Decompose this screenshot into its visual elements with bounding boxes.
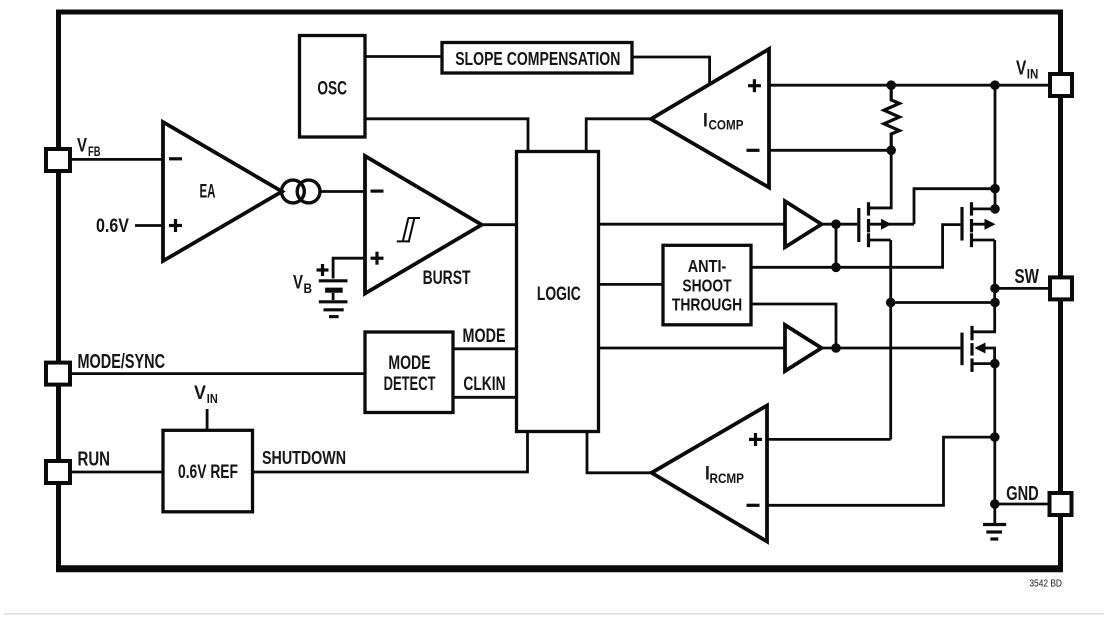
label ANTI-SHOOT THROUGH [672, 256, 742, 315]
wire anti-shoot upper output to main PMOS gate [751, 225, 960, 268]
node dot NMOS gate drive [831, 343, 841, 353]
wire IRCMP output to LOGIC [587, 431, 652, 473]
wire slope compensation to ICOMP [632, 57, 710, 85]
node dot ICOMP plus at resistor top [886, 80, 896, 90]
transistor M2 main PMOS [962, 202, 996, 247]
wire CLKIN to LOGIC [453, 396, 517, 399]
wire RUN input [70, 471, 163, 474]
wire VFB input [70, 158, 163, 161]
svg-text:EA: EA [200, 182, 216, 203]
svg-text:GND: GND [1006, 483, 1038, 505]
wire LOGIC to upper gate buffer [599, 223, 786, 226]
svg-text:ANTI-: ANTI- [688, 256, 727, 276]
label ICOMP [703, 110, 744, 132]
wire MODE to LOGIC [453, 347, 517, 350]
wire BURST output to LOGIC [482, 223, 517, 226]
svg-text:CLKIN: CLKIN [463, 374, 505, 395]
svg-text:V: V [194, 383, 206, 404]
wire sense PMOS source to VIN rail [914, 189, 995, 225]
node dot NMOS source [990, 359, 1000, 369]
box ANTI-SHOOT THROUGH [663, 245, 751, 324]
wire main PMOS drain rail to SW and NMOS [974, 240, 995, 332]
ground symbol main [983, 504, 1006, 539]
transistor M1 sense PMOS [859, 202, 914, 247]
wire EA output to BURST minus input [320, 190, 365, 193]
svg-text:IN: IN [207, 391, 218, 406]
box SLOPE COMPENSATION [442, 43, 632, 74]
svg-text:SHUTDOWN: SHUTDOWN [262, 448, 346, 468]
comparator IRCMP [652, 406, 768, 542]
svg-text:BURST: BURST [423, 268, 471, 289]
box OSC [300, 36, 366, 138]
svg-text:RUN: RUN [78, 449, 111, 471]
node dot PMOS gate drive [831, 219, 841, 229]
node dot SW sense join [990, 298, 1000, 308]
svg-text:SLOPE COMPENSATION: SLOPE COMPENSATION [455, 48, 620, 69]
wire OSC to LOGIC [365, 119, 528, 152]
node dot sense drain SW [886, 298, 896, 308]
node dot anti-shoot upper [831, 263, 841, 273]
wire buffer output to PMOS gates node [822, 223, 858, 226]
svg-text:V: V [293, 273, 303, 294]
wire lower buffer output to NMOS gate [822, 347, 961, 350]
svg-text:IN: IN [1027, 67, 1039, 82]
pin VFB [46, 149, 70, 171]
wire VIN stub to 0.6V REF [206, 409, 209, 430]
node dot SW wire [990, 284, 1000, 294]
node dot VIN rail top [990, 80, 1000, 90]
node dot VIN rail at sense source [990, 184, 1000, 194]
wire OSC to slope compensation [365, 55, 442, 58]
node VIN rail vertical [994, 85, 997, 209]
pin SW [1050, 277, 1072, 299]
wire ICOMP minus input [769, 149, 891, 152]
wire NMOS source down to GND [993, 364, 996, 504]
ground below VB [319, 302, 348, 317]
current source double circle at EA output [282, 180, 321, 203]
wire ICOMP plus input to VIN rail [769, 84, 1050, 87]
svg-text:SW: SW [1015, 266, 1039, 288]
wire 0.6V to EA [135, 224, 163, 227]
wire LOGIC to anti-shoot through [599, 283, 664, 286]
label VIN pin [1016, 57, 1038, 81]
svg-text:FB: FB [88, 144, 101, 159]
label MODE DETECT [384, 353, 436, 395]
pin VIN [1050, 74, 1072, 96]
wire gate node down [835, 224, 838, 267]
wire anti-shoot lower output to NMOS gate node [751, 304, 836, 348]
comparator BURST with hysteresis [365, 156, 482, 294]
pin GND [1050, 493, 1072, 515]
node dot GND [990, 499, 1000, 509]
pin MODE/SYNC [46, 363, 70, 385]
svg-text:MODE/SYNC: MODE/SYNC [78, 351, 166, 373]
wire BURST plus input [333, 258, 365, 278]
wire SHUTDOWN to LOGIC [253, 431, 528, 472]
resistor sense [884, 85, 899, 150]
svg-text:RCMP: RCMP [710, 470, 745, 486]
wire LOGIC to lower gate buffer [599, 347, 786, 350]
buffer upper gate driver [785, 201, 822, 247]
battery VB [317, 264, 348, 300]
box MODE DETECT [365, 332, 453, 413]
wire SW pin [995, 287, 1050, 290]
svg-text:B: B [304, 281, 313, 296]
svg-text:V: V [77, 136, 87, 157]
svg-text:MODE: MODE [463, 326, 506, 347]
buffer lower gate driver [785, 325, 822, 371]
svg-text:THROUGH: THROUGH [672, 295, 742, 315]
svg-text:3542 BD: 3542 BD [1029, 578, 1062, 590]
page edge line [4, 613, 1104, 615]
label VIN above REF [194, 383, 218, 406]
wire IRCMP plus input [767, 438, 891, 441]
svg-text:I: I [703, 110, 708, 131]
wire sense PMOS drain down to SW node [889, 240, 892, 439]
wire IRCMP minus input [767, 437, 995, 505]
wire sense drain to SW rail [891, 301, 995, 304]
wire sense node down to sense FET source [870, 150, 891, 208]
svg-text:OSC: OSC [317, 79, 347, 100]
chip outline border [59, 12, 1061, 570]
label VB [293, 273, 312, 297]
wire MODE/SYNC input [70, 372, 365, 375]
transistor M3 main NMOS [962, 326, 995, 372]
box 0.6V REF [163, 430, 253, 512]
label VFB [77, 136, 101, 160]
pin RUN [46, 461, 70, 483]
svg-text:0.6V: 0.6V [96, 215, 129, 237]
wire ICOMP output to LOGIC [586, 119, 651, 152]
svg-text:0.6V REF: 0.6V REF [178, 462, 238, 483]
comparator ICOMP [651, 49, 769, 188]
wire GND pin [995, 503, 1050, 506]
svg-text:MODE: MODE [388, 353, 430, 374]
node dot resistor bottom [886, 146, 896, 156]
box LOGIC [517, 152, 599, 432]
op-amp EA error amplifier [163, 122, 282, 261]
svg-text:DETECT: DETECT [384, 374, 436, 395]
label IRCMP [705, 464, 744, 487]
svg-text:COMP: COMP [709, 116, 744, 132]
svg-text:LOGIC: LOGIC [537, 283, 581, 305]
node dot VIN rail at PMOS source [990, 204, 1000, 214]
svg-text:V: V [1016, 57, 1027, 79]
node dot IRCMP minus tap [990, 432, 1000, 442]
svg-text:SHOOT: SHOOT [682, 275, 731, 295]
